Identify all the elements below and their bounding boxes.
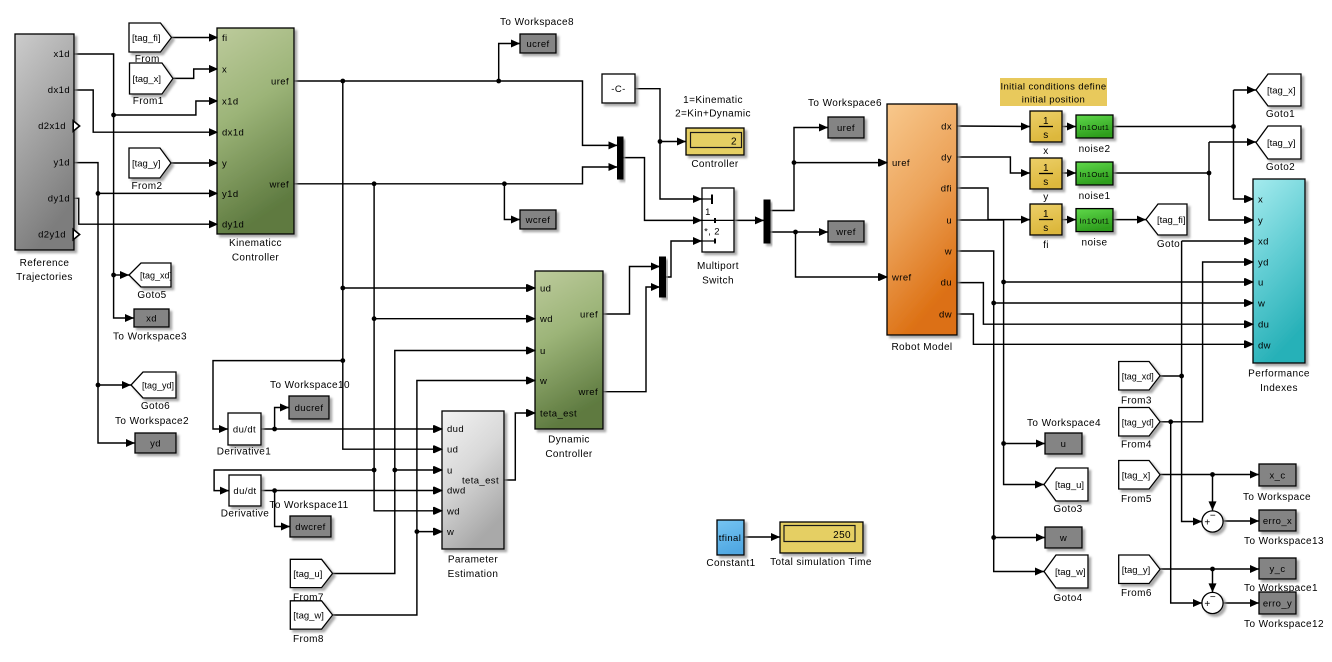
- svg-text:Robot Model: Robot Model: [891, 342, 952, 353]
- svg-text:To Workspace8: To Workspace8: [500, 17, 574, 28]
- goto Goto1: [1256, 74, 1301, 120]
- svg-text:y_c: y_c: [1270, 564, 1286, 575]
- constant Constant1: [706, 520, 755, 569]
- svg-text:noise2: noise2: [1079, 144, 1111, 155]
- block Dynamic Controller: [535, 271, 603, 460]
- to-workspace y_c: [1244, 558, 1318, 594]
- svg-text:x_c: x_c: [1270, 471, 1286, 482]
- from From4: [1119, 408, 1160, 451]
- svg-text:From6: From6: [1121, 588, 1152, 599]
- to-workspace u: [1027, 418, 1101, 454]
- wire int fi out: [1062, 216, 1076, 224]
- svg-text:1: 1: [1043, 209, 1049, 220]
- svg-text:u: u: [1258, 278, 1264, 289]
- svg-text:du/dt: du/dt: [233, 486, 256, 497]
- svg-text:du/dt: du/dt: [233, 425, 256, 436]
- to-workspace wcref: [520, 210, 556, 229]
- svg-text:x: x: [222, 65, 227, 76]
- svg-text:From5: From5: [1121, 494, 1152, 505]
- wire dfi: [957, 188, 1030, 224]
- svg-text:d2y1d: d2y1d: [38, 230, 66, 241]
- goto Goto5: [129, 263, 172, 301]
- svg-text:Constant1: Constant1: [706, 558, 755, 569]
- svg-text:teta_est: teta_est: [462, 475, 499, 486]
- block Reference Trajectories: [15, 34, 80, 283]
- svg-text:[tag_y]: [tag_y]: [1267, 138, 1296, 149]
- svg-text:From2: From2: [132, 181, 163, 192]
- integrator fi: [1030, 204, 1062, 251]
- integrator x: [1030, 111, 1062, 157]
- svg-text:wref: wref: [835, 227, 856, 238]
- svg-text:Dynamic: Dynamic: [548, 435, 590, 446]
- svg-text:du: du: [941, 278, 952, 289]
- svg-text:Goto5: Goto5: [137, 290, 166, 301]
- svg-text:−: −: [1210, 511, 1216, 522]
- svg-text:uref: uref: [837, 123, 855, 134]
- svg-text:Controller: Controller: [545, 449, 593, 460]
- wire mux1 to switch: [623, 158, 702, 225]
- wire tag_u net: [333, 347, 535, 574]
- svg-text:wd: wd: [446, 506, 460, 517]
- wire teta_est: [504, 409, 535, 480]
- to-workspace w: [1045, 527, 1082, 548]
- svg-text:d2x1d: d2x1d: [38, 121, 66, 132]
- from From6: [1119, 555, 1160, 599]
- svg-text:From1: From1: [133, 96, 164, 107]
- wire int x out: [1062, 123, 1076, 131]
- wire tag_w net: [333, 377, 535, 616]
- svg-text:Goto2: Goto2: [1266, 162, 1295, 173]
- svg-text:Goto4: Goto4: [1053, 593, 1082, 604]
- wire tfinal: [744, 533, 780, 541]
- svg-text:uref: uref: [580, 310, 598, 321]
- wire y meas net: [1113, 138, 1256, 224]
- svg-text:-C-: -C-: [611, 84, 625, 95]
- to-workspace yd: [115, 416, 189, 453]
- wire tag_y to y: [171, 159, 218, 167]
- mux2 dynamic: [660, 257, 666, 297]
- to-workspace erro_y: [1244, 592, 1324, 630]
- svg-text:1: 1: [705, 207, 711, 218]
- svg-text:y: y: [222, 159, 227, 170]
- svg-text:To Workspace6: To Workspace6: [808, 98, 882, 109]
- block Kinematicc Controller: [217, 28, 294, 264]
- svg-text:250: 250: [833, 530, 851, 541]
- svg-text:x: x: [1258, 195, 1263, 206]
- svg-text:From4: From4: [1121, 440, 1152, 451]
- svg-text:Goto3: Goto3: [1053, 504, 1082, 515]
- svg-text:s: s: [1043, 130, 1048, 141]
- constant -C-: [602, 74, 635, 103]
- svg-text:From8: From8: [293, 634, 324, 645]
- to-workspace erro_x: [1244, 510, 1324, 547]
- svg-text:Initial conditions define: Initial conditions define: [1000, 82, 1106, 93]
- wire x1d net: [74, 54, 218, 322]
- mux1: [618, 137, 624, 179]
- svg-text:teta_est: teta_est: [540, 409, 577, 420]
- integrator y: [1030, 158, 1062, 203]
- svg-text:Indexes: Indexes: [1260, 383, 1298, 394]
- wire tag_x meas net: [1160, 471, 1259, 511]
- subsystem noise1: [1076, 162, 1113, 202]
- goto Goto3: [1044, 468, 1088, 515]
- svg-text:dwcref: dwcref: [295, 522, 325, 533]
- wire dx: [957, 123, 1030, 131]
- svg-text:1: 1: [1043, 163, 1049, 174]
- svg-text:fi: fi: [1043, 240, 1049, 251]
- from From2: [129, 148, 171, 192]
- svg-text:yd: yd: [150, 439, 161, 450]
- wire x meas net: [1113, 86, 1256, 203]
- svg-text:1: 1: [1043, 116, 1049, 127]
- svg-text:Derivative: Derivative: [221, 509, 269, 520]
- input port arrows Performance Indexes: [1245, 195, 1254, 348]
- goto Goto2: [1256, 126, 1301, 173]
- wire demux wref net: [770, 228, 887, 281]
- svg-text:From3: From3: [1121, 396, 1152, 407]
- wire ducref net: [261, 404, 442, 434]
- from From5: [1119, 461, 1160, 506]
- svg-text:2: 2: [731, 137, 737, 148]
- input port arrows Dynamic Controller: [527, 284, 536, 417]
- svg-text:xd: xd: [146, 314, 157, 325]
- svg-text:yd: yd: [1258, 258, 1269, 269]
- svg-text:Trajectories: Trajectories: [16, 272, 73, 283]
- svg-text:w: w: [1059, 533, 1067, 544]
- display Controller: [686, 128, 744, 170]
- to-workspace uref: [808, 98, 882, 138]
- sum Sum2: [1202, 592, 1223, 614]
- wire erro_y: [1223, 599, 1259, 607]
- to-workspace x_c: [1243, 464, 1311, 503]
- subsystem noise: [1076, 209, 1113, 249]
- svg-text:[tag_w]: [tag_w]: [1055, 567, 1086, 578]
- svg-text:*, 2: *, 2: [704, 227, 720, 238]
- svg-text:dy1d: dy1d: [222, 220, 244, 231]
- wire fi meas: [1113, 216, 1146, 224]
- wire tag_y meas net: [1160, 565, 1259, 592]
- to-workspace ducref: [270, 380, 350, 419]
- svg-text:To Workspace4: To Workspace4: [1027, 418, 1101, 429]
- block Parameter Estimation: [442, 411, 504, 580]
- svg-text:x: x: [1043, 146, 1048, 157]
- svg-text:erro_x: erro_x: [1263, 516, 1292, 527]
- from From7: [290, 559, 332, 603]
- wire int y out: [1062, 169, 1076, 177]
- wire dy: [957, 157, 1030, 177]
- wire constant C net: [635, 89, 702, 203]
- wire tag_yd net: [1160, 258, 1253, 607]
- svg-text:w: w: [446, 527, 454, 538]
- svg-text:[tag_xd]: [tag_xd]: [140, 271, 172, 281]
- svg-text:y: y: [1258, 216, 1263, 227]
- svg-text:dy1d: dy1d: [48, 193, 70, 204]
- svg-text:To Workspace: To Workspace: [1243, 492, 1311, 503]
- svg-text:u: u: [447, 466, 453, 477]
- from From: [129, 23, 172, 65]
- svg-text:dx1d: dx1d: [222, 128, 244, 139]
- svg-text:dw: dw: [939, 310, 952, 321]
- wire tag_xd net: [1160, 237, 1253, 526]
- svg-text:[tag_xd]: [tag_xd]: [1122, 371, 1154, 381]
- svg-text:w: w: [539, 376, 547, 387]
- svg-text:u: u: [1061, 439, 1067, 450]
- input port arrows Kinematicc Controller: [209, 34, 218, 229]
- block Robot Model: [887, 104, 957, 353]
- wire dx1d: [74, 90, 218, 136]
- svg-text:[tag_u]: [tag_u]: [1055, 480, 1084, 491]
- svg-text:tfinal: tfinal: [719, 533, 741, 544]
- svg-text:To Workspace12: To Workspace12: [1244, 619, 1324, 630]
- svg-text:[tag_x]: [tag_x]: [1267, 86, 1296, 97]
- svg-text:noise: noise: [1082, 238, 1108, 249]
- wire switch to demux: [734, 216, 764, 224]
- svg-text:s: s: [1043, 223, 1048, 234]
- svg-text:[tag_y]: [tag_y]: [132, 159, 161, 170]
- wire tag_x to x: [173, 65, 218, 78]
- svg-text:y1d: y1d: [222, 189, 239, 200]
- wire erro_x: [1223, 517, 1259, 525]
- svg-text:To Workspace13: To Workspace13: [1244, 536, 1324, 547]
- to-workspace wref: [828, 221, 864, 242]
- svg-text:Derivative1: Derivative1: [217, 447, 271, 458]
- svg-text:wref: wref: [268, 179, 289, 190]
- svg-text:To Workspace10: To Workspace10: [270, 380, 350, 391]
- svg-text:dx1d: dx1d: [48, 85, 70, 96]
- svg-text:noise1: noise1: [1079, 191, 1111, 202]
- svg-text:To Workspace3: To Workspace3: [113, 332, 187, 343]
- annotation initial conditions: [1000, 78, 1107, 106]
- svg-text:[tag_y]: [tag_y]: [1122, 565, 1151, 576]
- svg-text:[tag_x]: [tag_x]: [133, 74, 162, 85]
- wire u net: [957, 220, 1253, 489]
- svg-text:dwd: dwd: [447, 485, 466, 496]
- from From8: [290, 601, 332, 645]
- svg-text:dfi: dfi: [941, 184, 952, 195]
- svg-text:Performance: Performance: [1248, 369, 1310, 380]
- from From3: [1119, 362, 1160, 407]
- annotation controller mode: [675, 95, 751, 120]
- svg-text:s: s: [1043, 177, 1048, 188]
- svg-text:[tag_yd]: [tag_yd]: [142, 381, 174, 391]
- svg-text:Controller: Controller: [691, 159, 739, 170]
- svg-text:Goto6: Goto6: [141, 401, 170, 412]
- wire dy1d: [74, 198, 218, 228]
- svg-text:Kinematicc: Kinematicc: [229, 238, 282, 249]
- derivative Derivative1: [217, 413, 271, 458]
- svg-text:wd: wd: [539, 314, 553, 325]
- svg-text:[tag_fi]: [tag_fi]: [1157, 215, 1186, 226]
- svg-text:Multiport: Multiport: [697, 261, 739, 272]
- wire w net: [957, 251, 1253, 576]
- svg-text:du: du: [1258, 320, 1269, 331]
- svg-text:Controller: Controller: [232, 253, 280, 264]
- demux: [764, 200, 770, 243]
- wire mux3 to switch: [666, 237, 702, 277]
- svg-text:Total simulation Time: Total simulation Time: [770, 557, 872, 568]
- svg-text:uref: uref: [271, 77, 289, 88]
- svg-text:y: y: [1043, 192, 1048, 203]
- svg-text:wcref: wcref: [525, 215, 551, 226]
- svg-text:x1d: x1d: [53, 49, 70, 60]
- svg-text:Goto1: Goto1: [1266, 109, 1295, 120]
- svg-text:Goto: Goto: [1157, 239, 1180, 250]
- goto Goto4: [1044, 555, 1088, 604]
- svg-text:wref: wref: [891, 273, 912, 284]
- block Performance Indexes: [1248, 179, 1310, 394]
- svg-text:Estimation: Estimation: [448, 569, 499, 580]
- wire uref net: [213, 40, 618, 454]
- svg-text:dw: dw: [1258, 341, 1271, 352]
- display Total simulation Time: [770, 522, 872, 568]
- svg-text:w: w: [1257, 299, 1265, 310]
- from From1: [130, 63, 174, 107]
- svg-text:x1d: x1d: [222, 97, 239, 108]
- svg-text:y1d: y1d: [53, 158, 70, 169]
- svg-text:ud: ud: [540, 284, 551, 295]
- goto Goto: [1146, 204, 1187, 250]
- subsystem noise2: [1076, 115, 1113, 155]
- svg-text:In1Out1: In1Out1: [1080, 217, 1110, 226]
- svg-text:dud: dud: [447, 424, 464, 435]
- derivative Derivative: [221, 475, 269, 520]
- svg-text:To Workspace11: To Workspace11: [269, 500, 348, 511]
- wire dw: [957, 314, 1253, 348]
- svg-text:To Workspace2: To Workspace2: [115, 416, 189, 427]
- wire DC wref: [603, 283, 660, 392]
- svg-text:In1Out1: In1Out1: [1080, 123, 1110, 132]
- goto Goto6: [131, 372, 176, 412]
- svg-text:uref: uref: [892, 158, 910, 169]
- svg-text:wref: wref: [577, 387, 598, 398]
- svg-text:initial position: initial position: [1022, 95, 1085, 106]
- svg-text:ud: ud: [447, 445, 458, 456]
- svg-text:2=Kin+Dynamic: 2=Kin+Dynamic: [675, 109, 751, 120]
- svg-text:In1Out1: In1Out1: [1080, 170, 1110, 179]
- svg-text:[tag_yd]: [tag_yd]: [1122, 417, 1154, 427]
- wire dwcref net: [261, 487, 442, 531]
- svg-text:−: −: [1210, 592, 1216, 603]
- svg-text:[tag_u]: [tag_u]: [293, 569, 322, 580]
- svg-text:u: u: [946, 216, 952, 227]
- svg-text:u: u: [540, 346, 546, 357]
- svg-text:fi: fi: [222, 33, 228, 44]
- svg-text:dy: dy: [941, 153, 952, 164]
- input port arrows Parameter Estimation: [434, 425, 443, 536]
- sum Sum1: [1202, 511, 1223, 533]
- wire du: [957, 283, 1253, 329]
- to-workspace xd: [113, 309, 187, 343]
- input port arrows Robot Model: [879, 159, 888, 281]
- svg-text:[tag_fi]: [tag_fi]: [132, 33, 161, 44]
- wire tag_fi to fi: [172, 34, 219, 42]
- svg-text:ucref: ucref: [526, 39, 549, 50]
- svg-text:erro_y: erro_y: [1263, 599, 1292, 610]
- wire wref net: [214, 163, 617, 515]
- svg-text:dx: dx: [941, 122, 952, 133]
- wire demux uref net: [770, 124, 887, 211]
- svg-text:ducref: ducref: [295, 403, 324, 414]
- svg-text:w: w: [944, 247, 952, 258]
- wire y1d net: [74, 163, 218, 447]
- svg-text:xd: xd: [1258, 237, 1269, 248]
- to-workspace ucref: [500, 17, 574, 53]
- wire DC uref: [603, 263, 660, 315]
- svg-text:[tag_x]: [tag_x]: [1122, 470, 1151, 481]
- svg-text:Parameter: Parameter: [448, 555, 499, 566]
- svg-text:1=Kinematic: 1=Kinematic: [683, 95, 743, 106]
- multiport switch: [697, 188, 739, 287]
- svg-text:[tag_w]: [tag_w]: [293, 611, 324, 622]
- svg-text:Switch: Switch: [702, 276, 734, 287]
- to-workspace dwcref: [269, 500, 348, 537]
- svg-text:Reference: Reference: [20, 258, 70, 269]
